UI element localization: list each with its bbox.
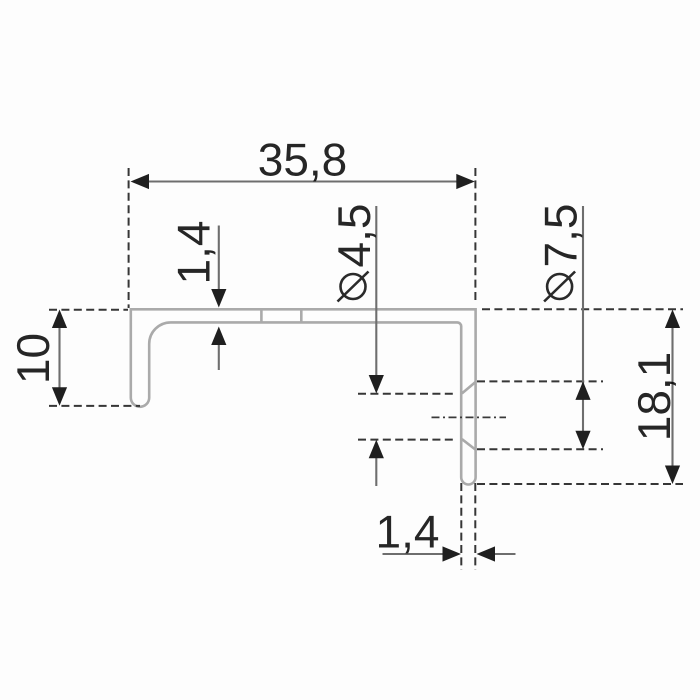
svg-text:4,5: 4,5	[328, 204, 380, 268]
svg-text:35,8: 35,8	[258, 134, 348, 186]
svg-text:1,4: 1,4	[168, 221, 220, 285]
svg-text:18,1: 18,1	[628, 352, 680, 442]
svg-text:10: 10	[7, 333, 59, 384]
svg-text:1,4: 1,4	[376, 506, 440, 558]
svg-text:7,5: 7,5	[535, 204, 587, 268]
